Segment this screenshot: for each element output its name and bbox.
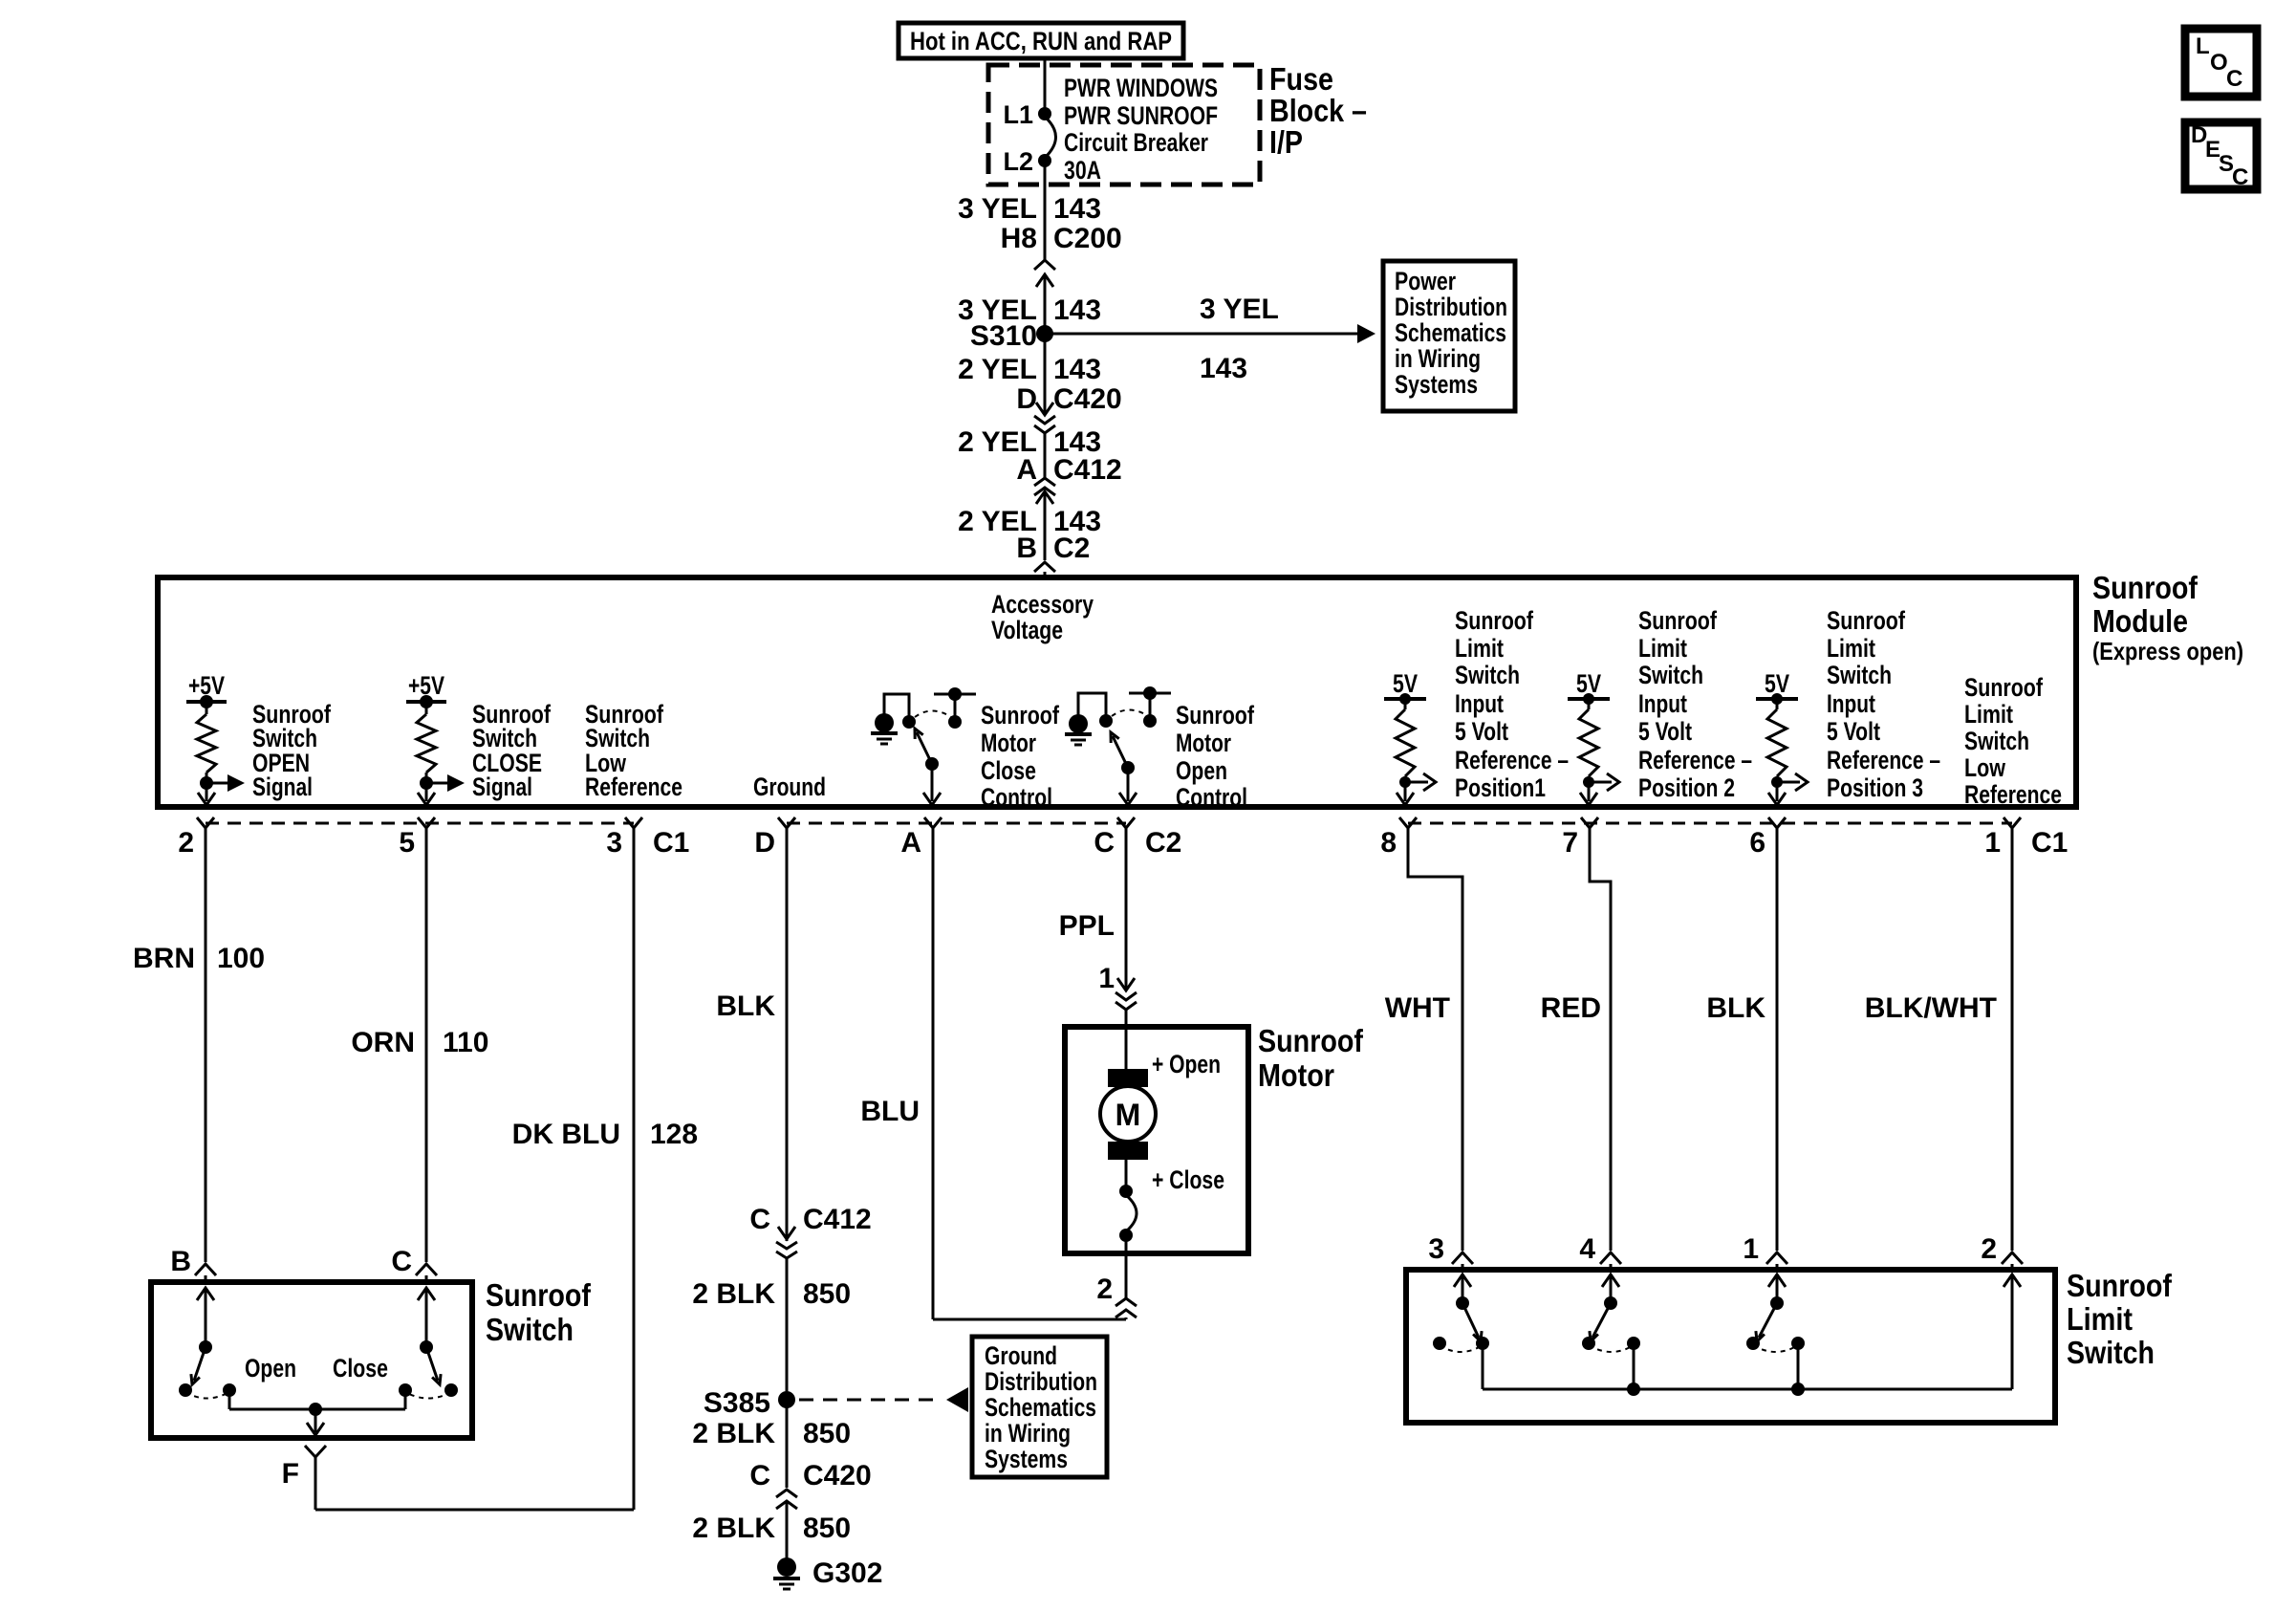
svg-text:Sunroof: Sunroof — [1827, 606, 1906, 635]
label Sunroof Limit Switch Input 5 Volt Reference - Position 2 — [1638, 606, 1752, 802]
svg-text:Reference: Reference — [1964, 780, 2062, 809]
limit switch pin 1 connector — [1743, 1233, 1787, 1270]
svg-text:Close: Close — [333, 1354, 388, 1382]
svg-text:C: C — [749, 1460, 770, 1491]
Sunroof Module box — [158, 577, 2076, 807]
svg-text:Sunroof: Sunroof — [981, 701, 1060, 729]
svg-text:Motor: Motor — [1176, 729, 1231, 757]
svg-text:Reference –: Reference – — [1455, 746, 1569, 774]
wire BRN 100 from module pin 2 to sunroof switch pin B — [133, 826, 265, 1262]
svg-text:A: A — [1016, 454, 1037, 486]
Sunroof Switch box — [151, 1282, 472, 1438]
svg-text:Switch: Switch — [1827, 661, 1892, 689]
breaker value label: PWR WINDOWS PWR SUNROOF Circuit Breaker 30A — [1064, 74, 1218, 185]
svg-text:+ Close: + Close — [1152, 1165, 1224, 1194]
svg-text:Position1: Position1 — [1455, 773, 1546, 802]
connector label C / C420 (ground wire) — [749, 1460, 871, 1491]
svg-text:Sunroof: Sunroof — [1455, 606, 1534, 635]
svg-text:C412: C412 — [803, 1204, 872, 1235]
svg-text:Motor: Motor — [981, 729, 1036, 757]
label Sunroof Motor Close Control — [981, 701, 1060, 812]
limit switch contact position 1 (pin 3) — [1433, 1274, 1489, 1389]
svg-text:Open: Open — [245, 1354, 296, 1382]
svg-text:Schematics: Schematics — [1395, 318, 1506, 347]
label Sunroof Switch CLOSE Signal — [472, 700, 552, 801]
svg-text:Circuit Breaker: Circuit Breaker — [1064, 128, 1208, 157]
svg-text:2 BLK: 2 BLK — [692, 1418, 775, 1449]
Sunroof Motor title — [1258, 1023, 1364, 1093]
svg-text:Switch: Switch — [1964, 727, 2029, 755]
circuit breaker: PWR WINDOWS PWR SUNROOF Circuit Breaker 30A — [1038, 58, 1056, 261]
svg-text:Sunroof: Sunroof — [1964, 673, 2044, 702]
pull-up resistor +5V Sunroof Switch OPEN Signal — [186, 671, 245, 805]
svg-text:Power: Power — [1395, 267, 1456, 295]
wire BLU from module pin A to sunroof motor pin 2 — [860, 826, 1126, 1319]
Sunroof Motor box — [1065, 1027, 1248, 1253]
sunroof switch CLOSE contact — [399, 1288, 458, 1409]
svg-text:Fuse: Fuse — [1269, 61, 1333, 97]
svg-text:Open: Open — [1176, 756, 1227, 785]
svg-text:Low: Low — [1964, 753, 2006, 782]
svg-text:F: F — [282, 1458, 299, 1490]
svg-text:C1: C1 — [653, 827, 689, 859]
module connector C1 dashed line (pins 2,5,3) — [206, 822, 634, 825]
svg-text:PWR SUNROOF: PWR SUNROOF — [1064, 101, 1218, 130]
connector C2 entry symbol at Sunroof Module — [1034, 562, 1055, 577]
svg-text:BLK: BLK — [1706, 992, 1765, 1024]
svg-text:DK BLU: DK BLU — [512, 1119, 620, 1150]
wire label 2 YEL 143 (C412 to C2) — [958, 506, 1101, 537]
svg-text:2 BLK: 2 BLK — [692, 1278, 775, 1310]
svg-text:2: 2 — [178, 827, 194, 859]
wire label 2 YEL 143 (S310 to C420) — [958, 334, 1101, 415]
svg-text:I/P: I/P — [1269, 124, 1303, 160]
svg-text:Reference –: Reference – — [1827, 746, 1940, 774]
svg-text:Switch: Switch — [1455, 661, 1520, 689]
ground G302 — [773, 1557, 882, 1589]
svg-text:+ Open: + Open — [1152, 1050, 1221, 1078]
svg-text:B: B — [170, 1246, 191, 1277]
svg-text:Switch: Switch — [486, 1312, 574, 1347]
DESC reference box — [2185, 122, 2257, 190]
sunroof switch pin F connector — [282, 1446, 326, 1490]
svg-text:Ground: Ground — [753, 773, 826, 801]
reference box: Ground Distribution Schematics in Wiring Systems — [972, 1337, 1107, 1477]
wire WHT from module pin 8 to limit switch pin 3 — [1385, 826, 1462, 1251]
svg-text:Sunroof: Sunroof — [1176, 701, 1255, 729]
Sunroof Limit Switch title — [2067, 1268, 2173, 1370]
svg-text:850: 850 — [803, 1513, 851, 1544]
svg-text:6: 6 — [1749, 827, 1765, 859]
wire BLK from module pin D to C412 — [716, 826, 787, 1241]
svg-text:143: 143 — [1053, 294, 1101, 326]
wire 2 BLK 850 from C412 to S385 — [692, 1278, 851, 1310]
svg-text:C: C — [2232, 164, 2248, 190]
label Sunroof Motor Open Control — [1176, 701, 1255, 812]
svg-text:5: 5 — [399, 827, 415, 859]
svg-text:Reference: Reference — [585, 773, 682, 801]
svg-text:C200: C200 — [1053, 223, 1122, 254]
svg-text:2: 2 — [1981, 1233, 1997, 1265]
svg-text:7: 7 — [1562, 827, 1578, 859]
net label Accessory Voltage — [991, 590, 1094, 644]
module pin 1 connector C1 — [1984, 817, 2068, 859]
module pin D — [754, 817, 795, 859]
svg-text:C1: C1 — [2031, 827, 2068, 859]
sunroof motor pin 2 connector — [1096, 1253, 1137, 1319]
svg-text:L2: L2 — [1003, 147, 1033, 176]
svg-text:Switch: Switch — [2067, 1335, 2155, 1370]
connector label C / C412 (ground wire) — [749, 1204, 871, 1235]
svg-text:Position 3: Position 3 — [1827, 773, 1923, 802]
svg-text:4: 4 — [1579, 1233, 1595, 1265]
svg-text:Sunroof: Sunroof — [2092, 570, 2199, 605]
svg-text:Distribution: Distribution — [1395, 293, 1507, 321]
svg-text:in Wiring: in Wiring — [985, 1419, 1071, 1448]
svg-text:110: 110 — [443, 1027, 488, 1058]
svg-text:Systems: Systems — [985, 1445, 1068, 1473]
svg-text:5 Volt: 5 Volt — [1455, 717, 1508, 746]
svg-text:1: 1 — [1984, 827, 2001, 859]
svg-text:H8: H8 — [1001, 223, 1037, 254]
svg-text:Control: Control — [1176, 783, 1247, 812]
svg-text:BRN: BRN — [133, 943, 195, 974]
label Sunroof Limit Switch Input 5 Volt Reference - Position 3 — [1827, 606, 1940, 802]
label Sunroof Switch OPEN Signal — [252, 700, 332, 801]
svg-text:C412: C412 — [1053, 454, 1122, 486]
svg-text:BLU: BLU — [860, 1096, 920, 1127]
svg-text:Input: Input — [1455, 689, 1504, 718]
wire BLK/WHT from module pin 1 to limit switch pin 2 — [1865, 826, 2012, 1251]
connector label H8 / C200 — [1001, 223, 1122, 254]
connector C420 in-line symbol — [1034, 403, 1055, 478]
svg-text:Limit: Limit — [1964, 700, 2013, 729]
limit switch pin 3 connector — [1428, 1233, 1473, 1270]
svg-text:Module: Module — [2092, 603, 2188, 639]
label Sunroof Limit Switch Low Reference — [1964, 673, 2062, 809]
svg-text:Motor: Motor — [1258, 1057, 1334, 1093]
module pin 3 connector C1 — [606, 817, 689, 859]
sunroof switch common wire to pin F — [229, 1403, 405, 1435]
svg-text:100: 100 — [217, 943, 265, 974]
svg-text:Sunroof: Sunroof — [1638, 606, 1718, 635]
driver switch Sunroof Motor Close Control — [871, 687, 976, 805]
wire 2 BLK 850 from C420 to G302 — [692, 1513, 851, 1544]
svg-text:PWR WINDOWS: PWR WINDOWS — [1064, 74, 1218, 102]
svg-text:ORN: ORN — [351, 1027, 415, 1058]
svg-text:Signal: Signal — [472, 773, 532, 801]
wire 3 YEL 143 branch from S310 to Power Distribution — [1045, 294, 1375, 384]
svg-text:PPL: PPL — [1059, 910, 1115, 942]
svg-text:M: M — [1116, 1098, 1141, 1132]
svg-text:S385: S385 — [704, 1387, 770, 1419]
module pin 7 — [1562, 817, 1598, 859]
svg-text:L1: L1 — [1003, 100, 1033, 129]
motor internal breaker contact — [1119, 1160, 1137, 1253]
connector C412 in-line symbol (ground wire) — [776, 1227, 797, 1391]
svg-text:S310: S310 — [970, 320, 1037, 352]
power source label: Hot in ACC, RUN and RAP — [899, 23, 1183, 58]
limit switch contact position 3 (pin 1) — [1746, 1274, 1805, 1389]
svg-text:Schematics: Schematics — [985, 1393, 1096, 1422]
wire label 3 YEL 143 (breaker to C200) — [958, 193, 1101, 225]
wire label 3 YEL 143 (C200 to S310) — [958, 294, 1101, 326]
pull-up resistor 5V limit switch input position 1 — [1384, 669, 1436, 805]
svg-text:Signal: Signal — [252, 773, 313, 801]
svg-text:G302: G302 — [812, 1557, 882, 1589]
svg-text:Sunroof: Sunroof — [1258, 1023, 1364, 1058]
reference box: Power Distribution Schematics in Wiring Systems — [1383, 261, 1515, 411]
wire ORN 110 from module pin 5 to sunroof switch pin C — [351, 826, 488, 1262]
connector C412 in-line symbol — [1034, 478, 1055, 560]
sunroof motor pin 1 connector — [1098, 963, 1137, 1027]
LOC reference box — [2185, 29, 2257, 97]
svg-text:O: O — [2210, 50, 2228, 76]
connector label B / C2 — [1016, 533, 1090, 564]
splice S310 — [970, 320, 1053, 352]
svg-text:C: C — [1094, 827, 1115, 859]
svg-text:Ground: Ground — [985, 1341, 1057, 1370]
svg-text:C: C — [391, 1246, 412, 1277]
svg-text:Accessory: Accessory — [991, 590, 1094, 619]
pull-up resistor +5V Sunroof Switch CLOSE Signal — [406, 671, 465, 805]
svg-text:143: 143 — [1053, 193, 1101, 225]
svg-text:D: D — [754, 827, 775, 859]
svg-text:Position 2: Position 2 — [1638, 773, 1735, 802]
label Sunroof Limit Switch Input 5 Volt Reference - Position1 — [1455, 606, 1569, 802]
svg-text:5 Volt: 5 Volt — [1638, 717, 1692, 746]
svg-text:Control: Control — [981, 783, 1052, 812]
svg-text:C2: C2 — [1053, 533, 1090, 564]
wire PPL from module pin C to sunroof motor pin 1 — [1059, 826, 1126, 991]
svg-text:Limit: Limit — [1455, 634, 1504, 663]
svg-text:in Wiring: in Wiring — [1395, 344, 1481, 373]
module pin A — [900, 817, 942, 859]
svg-text:RED: RED — [1541, 992, 1601, 1024]
limit switch contact position 2 (pin 4) — [1582, 1274, 1640, 1389]
fuse block dashed box (Fuse Block - I/P) — [988, 65, 1260, 185]
svg-text:3: 3 — [606, 827, 622, 859]
limit switch pin 2 connector — [1981, 1233, 2023, 1270]
svg-text:Switch: Switch — [1638, 661, 1703, 689]
Sunroof Switch title — [486, 1277, 592, 1347]
pull-up resistor 5V limit switch input position 2 — [1568, 669, 1619, 805]
Sunroof Module title (Express open) — [2092, 570, 2243, 665]
svg-text:BLK/WHT: BLK/WHT — [1865, 992, 1997, 1024]
svg-text:128: 128 — [650, 1119, 698, 1150]
svg-text:2: 2 — [1096, 1274, 1113, 1305]
dashed reference wire from S385 to Ground Distribution box — [799, 1387, 968, 1412]
module pin 6 — [1749, 817, 1786, 859]
svg-text:Systems: Systems — [1395, 370, 1478, 399]
module pin 8 — [1380, 817, 1417, 859]
svg-text:C: C — [2226, 66, 2242, 92]
svg-text:Block –: Block – — [1269, 93, 1367, 128]
svg-text:C420: C420 — [803, 1460, 872, 1491]
svg-text:2 BLK: 2 BLK — [692, 1513, 775, 1544]
connector C420 in-line symbol (ground wire) — [776, 1490, 797, 1558]
module connector C1 dashed line (pins 8,7,6,1) — [1408, 822, 2012, 825]
svg-text:L: L — [2196, 33, 2210, 59]
svg-text:C: C — [749, 1204, 770, 1235]
svg-text:Reference –: Reference – — [1638, 746, 1752, 774]
svg-text:143: 143 — [1200, 353, 1247, 384]
wire RED from module pin 7 to limit switch pin 4 — [1541, 826, 1611, 1251]
wire DK BLU 128 from module pin 3 to sunroof switch pin F — [315, 826, 698, 1510]
sunroof switch OPEN contact — [179, 1288, 236, 1409]
svg-text:Sunroof: Sunroof — [2067, 1268, 2173, 1303]
svg-text:Sunroof: Sunroof — [486, 1277, 592, 1313]
svg-text:5 Volt: 5 Volt — [1827, 717, 1880, 746]
svg-text:Distribution: Distribution — [985, 1367, 1097, 1396]
fuse block label: Fuse Block - I/P — [1269, 61, 1367, 160]
svg-text:C420: C420 — [1053, 383, 1122, 415]
pull-up resistor 5V limit switch input position 3 — [1756, 669, 1808, 805]
splice S385 — [704, 1387, 795, 1419]
svg-text:850: 850 — [803, 1278, 851, 1310]
limit switch common bus wire to pin 2 — [1483, 1274, 2021, 1396]
motor M armature — [1100, 1027, 1156, 1160]
svg-text:WHT: WHT — [1385, 992, 1450, 1024]
svg-text:B: B — [1016, 533, 1037, 564]
driver switch Sunroof Motor Open Control — [1065, 686, 1171, 805]
module pin 5 — [399, 817, 435, 859]
connector C200 in-line symbol — [1034, 260, 1055, 332]
Sunroof Limit Switch box — [1406, 1270, 2055, 1423]
svg-text:BLK: BLK — [716, 991, 775, 1022]
svg-text:(Express open): (Express open) — [2092, 637, 2243, 665]
svg-text:850: 850 — [803, 1418, 851, 1449]
svg-text:3 YEL: 3 YEL — [1200, 294, 1279, 325]
svg-text:Voltage: Voltage — [991, 616, 1063, 644]
svg-text:Input: Input — [1827, 689, 1875, 718]
limit switch pin 4 connector — [1579, 1233, 1621, 1270]
svg-text:3 YEL: 3 YEL — [958, 193, 1037, 225]
sunroof switch pin C connector — [391, 1246, 437, 1282]
svg-text:Limit: Limit — [1638, 634, 1687, 663]
svg-text:30A: 30A — [1064, 156, 1101, 185]
svg-text:143: 143 — [1053, 354, 1101, 385]
svg-text:Input: Input — [1638, 689, 1687, 718]
svg-text:D: D — [1016, 383, 1037, 415]
svg-text:Limit: Limit — [1827, 634, 1875, 663]
sunroof switch pin B connector — [170, 1246, 216, 1282]
wire 2 BLK 850 from S385 to C420 — [692, 1400, 851, 1488]
connector label D / C420 — [1016, 383, 1121, 415]
svg-text:3: 3 — [1428, 1233, 1444, 1265]
connector label A / C412 — [1016, 454, 1121, 486]
wire label 2 YEL 143 (C420 to C412) — [958, 426, 1101, 458]
svg-text:A: A — [900, 827, 921, 859]
svg-text:2 YEL: 2 YEL — [958, 354, 1037, 385]
module pin C connector C2 — [1094, 817, 1181, 859]
svg-text:1: 1 — [1743, 1233, 1759, 1265]
svg-text:1: 1 — [1098, 963, 1115, 994]
label Sunroof Switch Low Reference — [585, 700, 682, 801]
svg-text:Hot in ACC, RUN and RAP: Hot in ACC, RUN and RAP — [910, 27, 1172, 55]
wire BLK from module pin 6 to limit switch pin 1 — [1706, 826, 1777, 1251]
module connector C2 dashed line (pins D,A,C) — [787, 822, 1126, 825]
svg-text:Close: Close — [981, 756, 1036, 785]
module pin 2 — [178, 817, 214, 859]
svg-text:8: 8 — [1380, 827, 1397, 859]
svg-text:C2: C2 — [1145, 827, 1181, 859]
svg-text:Limit: Limit — [2067, 1301, 2133, 1337]
